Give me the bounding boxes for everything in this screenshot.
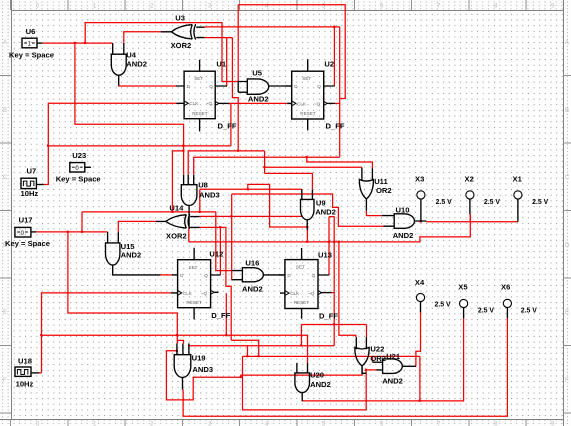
wire W2 U3 inA to U2 Q riser	[205, 26, 340, 28]
svg-text:U11: U11	[374, 177, 388, 186]
probe X4	[416, 293, 424, 312]
svg-text:Q: Q	[317, 84, 321, 89]
svg-text:2.5 V: 2.5 V	[478, 307, 494, 314]
wire U3 inB column down jog to x238	[232, 38, 238, 151]
svg-text:U9: U9	[316, 199, 326, 208]
svg-text:B: B	[3, 108, 7, 114]
svg-text:RESET: RESET	[192, 111, 208, 116]
svg-text:2.5 V: 2.5 V	[484, 199, 500, 206]
wire U1 ~Q down leg to H1	[230, 103, 232, 145]
and gate U16	[232, 268, 285, 282]
wire U2 ~Q stub extension	[335, 102, 340, 104]
svg-text:U3: U3	[175, 14, 185, 23]
svg-text:U4: U4	[126, 51, 136, 60]
and gate U15	[106, 232, 161, 275]
svg-text:Q: Q	[204, 273, 208, 278]
wire lower link to y356	[231, 340, 259, 356]
svg-text:~Q: ~Q	[201, 291, 208, 296]
wire from U19 pinA column down around to U22 output column	[166, 351, 362, 400]
wire U2 Q riser x334	[333, 27, 335, 86]
wire y324 U13 ~Q cross line	[301, 324, 366, 326]
d flip-flop U13	[279, 248, 332, 319]
svg-text:XOR2: XOR2	[171, 41, 192, 50]
probe X3	[417, 191, 425, 222]
wire H3 U8 input C line to U2 ~Q column	[194, 157, 340, 175]
wire X4 down jog to U21 out	[416, 312, 421, 366]
svg-text:U8: U8	[198, 181, 208, 190]
wire U7 clock riser and CLK line to U1	[44, 103, 177, 184]
wire U4 output to U1 D	[119, 85, 176, 86]
svg-text:U1: U1	[216, 60, 226, 69]
svg-text:E: E	[565, 310, 569, 316]
wire U8 out extension down	[188, 228, 190, 242]
svg-text:U5: U5	[252, 69, 262, 78]
wire U2 ~Q column x340	[339, 27, 341, 157]
and gate U10	[382, 214, 427, 229]
wire U9 input A line	[200, 188, 302, 190]
wire L344 U19 input C line	[189, 344, 334, 346]
svg-text:Key = Space: Key = Space	[56, 175, 101, 184]
svg-text:10Hz: 10Hz	[16, 379, 34, 388]
wire top long W1 from U5 column to right column	[238, 5, 345, 99]
wire U13 Q riser and upper stub	[329, 217, 334, 275]
svg-text:X3: X3	[415, 175, 424, 184]
svg-text:AND2: AND2	[393, 231, 414, 240]
svg-text:AND3: AND3	[192, 365, 213, 374]
wire U17 up branch to y212 line	[81, 212, 83, 232]
svg-text:U6: U6	[26, 27, 36, 36]
wire left end down to y410 and U22 out column	[243, 356, 367, 410]
wire U10 out to X1	[426, 221, 518, 223]
svg-text:CLK: CLK	[290, 291, 300, 296]
svg-text:U21: U21	[386, 352, 401, 361]
svg-text:D_FF: D_FF	[218, 122, 237, 131]
and gate U20	[295, 363, 310, 401]
wire U17 output line to U15 input A	[36, 231, 108, 233]
switch U17	[15, 227, 36, 237]
svg-text:U10: U10	[396, 205, 410, 214]
wire U18 clock line to U12 CLK	[39, 293, 171, 373]
svg-text:CLK: CLK	[183, 291, 193, 296]
wire U21 input B link	[366, 369, 376, 371]
wire y242 long line to X2	[189, 214, 471, 242]
svg-text:F: F	[565, 378, 569, 384]
wire x339 column from y242 to U22 input A	[339, 242, 356, 337]
wire U17 down branch to U19 input A	[68, 232, 177, 344]
svg-text:A: A	[3, 40, 7, 46]
and gate U19	[174, 344, 191, 390]
wire U6 branch down to U8 input A	[75, 43, 184, 175]
wire H1 horizontal y146	[48, 145, 231, 147]
svg-text:XOR2: XOR2	[166, 231, 187, 240]
svg-text:X6: X6	[501, 283, 510, 292]
wire branch to U19 input B	[177, 340, 183, 343]
svg-text:AND2: AND2	[382, 377, 403, 386]
wire U6 branch up to U5 input A	[85, 23, 238, 82]
svg-text:U19: U19	[192, 354, 206, 363]
wire U6 output to U4 input A	[42, 42, 113, 44]
switch U6	[22, 38, 42, 48]
svg-text:2.5 V: 2.5 V	[532, 199, 548, 206]
svg-text:RESET: RESET	[294, 300, 310, 305]
svg-text:2.5 V: 2.5 V	[521, 307, 537, 314]
right ruler	[563, 0, 571, 426]
wire U20 out to X5	[302, 318, 463, 401]
svg-text:C: C	[3, 175, 8, 181]
left ruler	[0, 0, 12, 426]
svg-text:AND2: AND2	[242, 285, 263, 294]
svg-text:F: F	[3, 378, 7, 384]
wire U14 inA ext from U8 out to U16 input B	[199, 215, 302, 217]
wire x216 down to U16 input A	[216, 212, 232, 271]
wire V5 x232 column down to U16 input B	[232, 194, 234, 280]
wire U21 input A riser	[372, 356, 374, 362]
wire to U22 input B	[366, 325, 368, 338]
svg-text:~Q: ~Q	[308, 291, 315, 296]
svg-text:X1: X1	[513, 175, 523, 184]
and gate U4	[111, 43, 126, 85]
svg-text:U13: U13	[318, 250, 332, 259]
svg-text:U16: U16	[245, 258, 259, 267]
wire branch over to U9 out column	[248, 184, 307, 227]
clock source U18	[15, 367, 39, 376]
probe X6	[503, 299, 511, 318]
wire x264 column	[264, 151, 266, 174]
and gate U8	[181, 175, 197, 228]
svg-text:U22: U22	[370, 344, 384, 353]
wire U13 ~Q riser x334	[332, 217, 335, 346]
svg-text:U2: U2	[324, 60, 334, 69]
wire U1 Q feedback to U3 input B	[205, 38, 233, 86]
wire X5 branch up to y356	[419, 356, 421, 401]
wire to U9 input B	[265, 173, 313, 189]
wire U14 inB to U12 Q riser	[199, 227, 231, 340]
svg-text:SET: SET	[296, 265, 305, 270]
svg-text:CLK: CLK	[297, 101, 307, 106]
svg-text:Key = Space: Key = Space	[5, 239, 50, 248]
svg-text:AND2: AND2	[126, 59, 147, 68]
xor gate U14	[156, 214, 200, 228]
wire U18 branch y335 to U20 input B	[42, 335, 308, 363]
wire y356 long line	[243, 355, 420, 357]
d flip-flop U2	[285, 59, 335, 130]
svg-text:U18: U18	[18, 357, 32, 366]
wire W1 upper vertical at x238	[237, 5, 239, 81]
svg-text:Q: Q	[209, 84, 213, 89]
svg-text:RESET: RESET	[186, 300, 202, 305]
svg-text:CLK: CLK	[189, 101, 199, 106]
svg-text:D_FF: D_FF	[326, 122, 345, 131]
svg-text:~Q: ~Q	[314, 101, 321, 106]
wire x301 down link	[300, 325, 302, 346]
svg-text:SET: SET	[189, 265, 198, 270]
d flip-flop U1	[176, 60, 229, 132]
clock source U7	[21, 178, 44, 188]
svg-text:B: B	[565, 108, 569, 114]
switch U23	[70, 163, 91, 172]
probe X5	[460, 299, 468, 318]
probe X2	[466, 191, 474, 214]
wire U1 ~Q to U2 CLK	[229, 102, 290, 104]
svg-text:AND3: AND3	[199, 190, 220, 199]
svg-text:E: E	[3, 310, 7, 316]
top ruler	[0, 0, 571, 11]
or gate U22	[355, 337, 369, 373]
svg-text:X5: X5	[458, 283, 468, 292]
svg-text:SET: SET	[302, 76, 311, 81]
wire riser to U13 CLK	[225, 293, 227, 335]
svg-text:U17: U17	[19, 216, 33, 225]
svg-text:D: D	[565, 243, 570, 249]
and gate U9	[301, 189, 315, 229]
wire riser x200 and y211 link	[82, 189, 216, 212]
wire U15 out to U12 D	[160, 274, 172, 276]
wire U11 out to U10 input A	[366, 211, 381, 216]
wire y194 path to U10 input B	[232, 194, 384, 226]
svg-text:U7: U7	[27, 167, 37, 176]
svg-text:RESET: RESET	[300, 111, 316, 116]
svg-text:AND2: AND2	[310, 380, 331, 389]
svg-text:2.5 V: 2.5 V	[436, 199, 452, 206]
and gate U21	[373, 359, 417, 374]
svg-text:U14: U14	[169, 204, 184, 213]
svg-text:X4: X4	[415, 278, 425, 287]
svg-text:AND2: AND2	[315, 207, 336, 216]
svg-text:C: C	[565, 175, 570, 181]
svg-text:A: A	[565, 40, 569, 46]
and gate U5	[238, 79, 292, 94]
svg-text:U23: U23	[72, 151, 86, 160]
wire X2 ext below stem	[469, 214, 471, 222]
wire x247 link	[247, 346, 249, 357]
svg-text:10Hz: 10Hz	[21, 189, 39, 198]
svg-text:Key = Space: Key = Space	[9, 51, 54, 60]
svg-text:D_FF: D_FF	[319, 312, 338, 321]
svg-text:X2: X2	[465, 175, 474, 184]
svg-text:U12: U12	[209, 249, 223, 258]
svg-text:AND2: AND2	[121, 251, 142, 260]
wire branch to U11 input A	[265, 166, 362, 168]
svg-text:SET: SET	[194, 76, 203, 81]
d flip-flop U12	[171, 248, 221, 320]
svg-text:D_FF: D_FF	[211, 311, 230, 320]
or gate U11	[359, 168, 373, 211]
bottom ruler	[0, 420, 571, 426]
wire branch H3 to U11 input B	[307, 157, 373, 168]
wire U9 out down	[306, 230, 308, 242]
svg-text:~Q: ~Q	[206, 101, 213, 106]
svg-text:2.5 V: 2.5 V	[435, 301, 451, 308]
wire U14 out to U15 input B	[118, 221, 156, 232]
wire H2 U8 input B line	[188, 151, 264, 175]
svg-text:Q: Q	[312, 273, 316, 278]
wire U19 out down to X6	[183, 318, 507, 416]
xor gate U3	[161, 24, 205, 39]
wire x172 link up to U8 column	[172, 151, 183, 212]
svg-text:OR2: OR2	[376, 186, 392, 195]
svg-text:AND2: AND2	[248, 95, 269, 104]
probe X1	[514, 191, 522, 222]
svg-text:U20: U20	[310, 370, 324, 379]
wire U3 output to U4 input B	[124, 32, 161, 43]
